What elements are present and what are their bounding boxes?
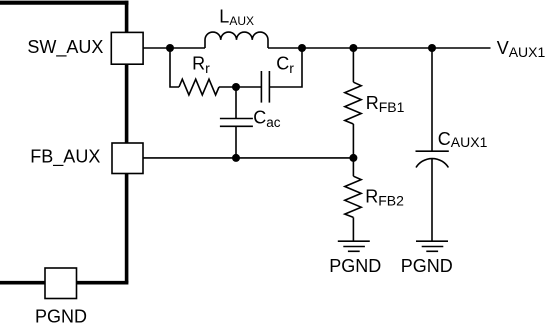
resistor RFB1 <box>345 82 361 124</box>
svg-text:CAUX1: CAUX1 <box>438 129 488 150</box>
wire RFB1 to FB node <box>352 124 354 158</box>
capacitor CAUX1 top plate <box>416 150 449 152</box>
junction node Cac / FB line <box>232 154 240 162</box>
resistor Rr <box>179 79 219 95</box>
svg-text:FB_AUX: FB_AUX <box>30 147 100 168</box>
pin FB_AUX box <box>112 143 143 174</box>
wire Rr to node A <box>219 86 236 88</box>
svg-text:Cac: Cac <box>253 108 281 131</box>
capacitor Cr right plate <box>268 71 270 103</box>
IC outline top edge <box>0 1 129 5</box>
capacitor Cr left plate <box>260 71 262 103</box>
capacitor Cac bottom plate <box>220 125 253 127</box>
wire Cac down to FB line <box>235 126 237 158</box>
wire RFB2 to ground <box>352 217 354 241</box>
svg-text:PGND: PGND <box>401 256 453 276</box>
capacitor Cac top plate <box>220 118 253 120</box>
junction node at SW rail / Rr branch <box>166 44 174 52</box>
wire rail down to RFB1 <box>352 48 354 82</box>
svg-text:Rr: Rr <box>192 54 210 76</box>
svg-text:LAUX: LAUX <box>219 7 254 28</box>
resistor RFB2 <box>345 176 361 217</box>
svg-text:SW_AUX: SW_AUX <box>27 37 103 58</box>
svg-text:PGND: PGND <box>329 256 381 276</box>
pin SW_AUX box <box>111 32 143 64</box>
wire node SW down to Rr <box>170 48 179 87</box>
IC outline bottom edge left segment <box>0 281 46 285</box>
junction node at rail / RFB1 <box>349 44 357 52</box>
ground PGND under CAUX1 <box>416 241 448 251</box>
junction node at rail / CAUX1 <box>428 44 436 52</box>
wire CAUX1 to ground <box>431 158 433 241</box>
junction node A Rr-Cr-Cac <box>232 83 240 91</box>
wire node A down to Cac <box>235 87 237 119</box>
junction node at rail / Cr branch <box>298 44 306 52</box>
wire node A to Cr <box>236 86 261 88</box>
svg-text:RFB2: RFB2 <box>365 187 404 209</box>
IC outline right edge <box>125 1 129 283</box>
ground PGND under RFB2 <box>338 241 370 251</box>
wire rail down to CAUX1 <box>431 48 433 151</box>
wire SW_AUX to inductor <box>143 47 205 49</box>
IC outline bottom edge right segment <box>76 281 128 285</box>
wire inductor to VAUX1 rail <box>268 47 491 49</box>
svg-text:Cr: Cr <box>276 54 294 76</box>
svg-text:VAUX1: VAUX1 <box>497 38 545 60</box>
svg-text:RFB1: RFB1 <box>366 93 405 115</box>
wire FB_AUX line <box>143 157 353 159</box>
inductor L_AUX <box>205 32 268 48</box>
junction node FB line / RFB1 / RFB2 <box>349 154 357 162</box>
wire Cr up to rail <box>269 48 302 87</box>
capacitor CAUX1 curved plate <box>416 159 448 168</box>
wire FB node down to RFB2 <box>352 158 354 176</box>
pin PGND box <box>45 268 77 299</box>
svg-text:PGND: PGND <box>35 307 87 327</box>
